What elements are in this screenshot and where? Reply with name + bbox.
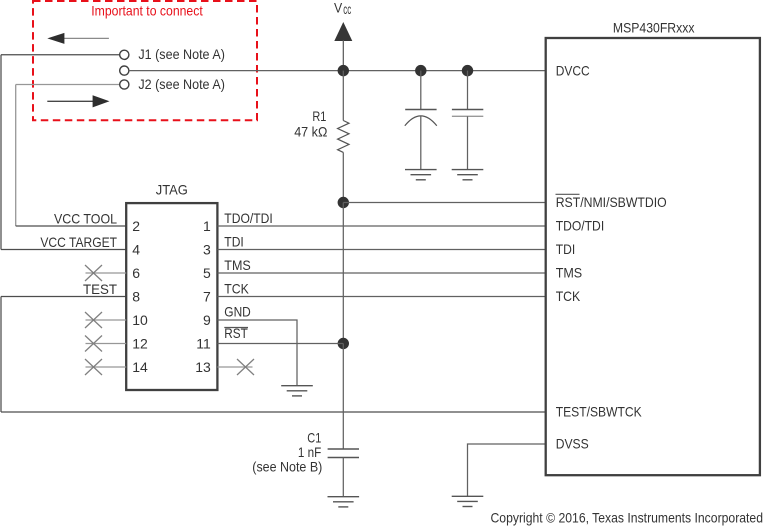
wire: JTAG pin 11 RST to node bbox=[217, 343, 343, 345]
wire: pin 6 stub bbox=[86, 272, 127, 274]
wire: TEST to JTAG pin 8 bbox=[1, 296, 126, 298]
wire: JTAG pin 1 TDO/TDI to MSP430 bbox=[217, 225, 545, 227]
no-connect X pin 14 bbox=[85, 359, 102, 375]
wire: Vcc rail down to R1 bbox=[342, 71, 344, 121]
wire: JTAG pin 3 TDI to MSP430 bbox=[217, 249, 545, 251]
svg-text:TMS: TMS bbox=[556, 265, 583, 281]
svg-text:J1 (see Note A): J1 (see Note A) bbox=[138, 46, 225, 62]
svg-text:DVCC: DVCC bbox=[556, 62, 590, 78]
svg-text:R1: R1 bbox=[312, 108, 326, 124]
svg-text:C1: C1 bbox=[307, 429, 321, 445]
svg-text:TDO/TDI: TDO/TDI bbox=[556, 218, 605, 234]
svg-text:TDO/TDI: TDO/TDI bbox=[224, 210, 272, 226]
svg-text:cc: cc bbox=[343, 1, 351, 17]
ground under cap 1 bbox=[405, 170, 437, 180]
MSP430 device box bbox=[546, 38, 760, 475]
svg-text:9: 9 bbox=[203, 312, 211, 328]
jumper circle common (DVCC) bbox=[120, 66, 129, 75]
svg-text:12: 12 bbox=[132, 336, 148, 352]
JTAG connector box bbox=[126, 203, 217, 390]
svg-text:TCK: TCK bbox=[556, 288, 581, 304]
svg-text:13: 13 bbox=[195, 359, 211, 375]
jumper circle J1 bbox=[120, 50, 129, 59]
jumper circle J2 bbox=[120, 80, 129, 89]
wire: pin 10 stub bbox=[86, 319, 127, 321]
ground under C1 bbox=[328, 497, 360, 507]
wire: vertical down to C1 bbox=[342, 344, 344, 450]
wire: left rail vertical (TEST down to TEST/SBWTCK line) bbox=[0, 297, 2, 413]
wire: second rail vertical (J2 to VCC TOOL) bbox=[15, 85, 17, 227]
svg-text:V: V bbox=[334, 0, 343, 16]
svg-text:MSP430FRxxx: MSP430FRxxx bbox=[613, 20, 695, 36]
svg-text:TEST: TEST bbox=[83, 281, 117, 297]
wire: pin 12 stub bbox=[86, 343, 127, 345]
svg-text:(see Note B): (see Note B) bbox=[252, 459, 322, 475]
svg-text:1: 1 bbox=[203, 218, 211, 234]
red dashed emphasis box bbox=[33, 1, 257, 120]
svg-text:11: 11 bbox=[196, 336, 211, 352]
wire: R1 to RST node bbox=[342, 152, 344, 202]
svg-text:3: 3 bbox=[203, 242, 211, 258]
node: JTAG RST junction bbox=[338, 338, 349, 349]
svg-text:VCC TOOL: VCC TOOL bbox=[54, 210, 117, 226]
capacitor C1 bbox=[328, 449, 359, 497]
wire: pin 13 stub bbox=[217, 366, 252, 368]
svg-text:JTAG: JTAG bbox=[156, 181, 188, 197]
wire: VCC TOOL to JTAG pin 2 bbox=[16, 225, 127, 227]
node: Vcc rail junction bbox=[338, 65, 349, 76]
ground for pin 9 bbox=[281, 386, 313, 396]
wire: pin 14 stub bbox=[86, 366, 127, 368]
Vcc supply symbol bbox=[334, 0, 352, 71]
svg-text:VCC TARGET: VCC TARGET bbox=[40, 234, 117, 250]
svg-text:TDI: TDI bbox=[224, 234, 244, 250]
wire: VCC TARGET to JTAG pin 4 bbox=[1, 249, 126, 251]
wire: vertical RST node down to JTAG RST node bbox=[342, 203, 344, 344]
wire: RST/NMI line to MSP430 bbox=[343, 202, 545, 204]
wire: J1 line from left rail bbox=[1, 54, 120, 56]
svg-text:Copyright © 2016, Texas Instru: Copyright © 2016, Texas Instruments Inco… bbox=[491, 509, 764, 525]
svg-text:4: 4 bbox=[132, 242, 140, 258]
node: bypass cap 2 junction bbox=[462, 65, 473, 76]
capacitor bypass 1 (polarized) bbox=[405, 71, 437, 170]
wire: DVCC rail from jumper to MSP430 bbox=[129, 70, 546, 72]
right current arrow bbox=[47, 95, 109, 107]
no-connect X pin 10 bbox=[85, 312, 102, 328]
svg-text:RST/NMI/SBWTDIO: RST/NMI/SBWTDIO bbox=[556, 194, 667, 210]
svg-text:GND: GND bbox=[224, 303, 251, 319]
svg-text:47 kΩ: 47 kΩ bbox=[294, 124, 327, 140]
no-connect X pin 6 bbox=[85, 265, 102, 281]
svg-text:Important to connect: Important to connect bbox=[91, 3, 203, 19]
svg-text:J2 (see Note A): J2 (see Note A) bbox=[138, 76, 225, 92]
no-connect X pin 12 bbox=[85, 336, 102, 352]
resistor R1 47k zigzag bbox=[338, 121, 349, 153]
wire: JTAG pin 7 TCK to MSP430 bbox=[217, 296, 545, 298]
no-connect X pin 13 bbox=[237, 359, 254, 375]
wire: DVSS to ground bbox=[468, 444, 546, 496]
svg-text:TCK: TCK bbox=[224, 281, 249, 297]
node: RST/NMI junction bbox=[338, 197, 349, 208]
svg-text:TDI: TDI bbox=[556, 241, 576, 257]
wire: TEST/SBWTCK long bottom line bbox=[1, 411, 546, 413]
svg-text:DVSS: DVSS bbox=[556, 436, 589, 452]
svg-text:8: 8 bbox=[132, 289, 140, 305]
left current arrow bbox=[47, 33, 109, 44]
wire: JTAG pin 5 TMS to MSP430 bbox=[217, 272, 545, 274]
wire: J2 line to second rail bbox=[16, 84, 120, 86]
svg-text:6: 6 bbox=[132, 265, 140, 281]
svg-text:14: 14 bbox=[132, 359, 148, 375]
node: bypass cap 1 junction bbox=[415, 65, 426, 76]
svg-text:TEST/SBWTCK: TEST/SBWTCK bbox=[556, 404, 643, 420]
svg-text:10: 10 bbox=[132, 312, 148, 328]
capacitor bypass 2 bbox=[452, 71, 483, 170]
svg-text:7: 7 bbox=[203, 289, 211, 305]
ground under cap 2 bbox=[452, 170, 484, 180]
wire: left rail vertical (J1 to VCC TARGET) bbox=[0, 55, 2, 250]
svg-text:1 nF: 1 nF bbox=[298, 444, 321, 460]
svg-text:2: 2 bbox=[132, 218, 140, 234]
wire: JTAG pin 9 GND bbox=[217, 320, 297, 386]
svg-text:TMS: TMS bbox=[224, 257, 251, 273]
ground for DVSS bbox=[452, 496, 484, 506]
svg-text:5: 5 bbox=[203, 265, 211, 281]
